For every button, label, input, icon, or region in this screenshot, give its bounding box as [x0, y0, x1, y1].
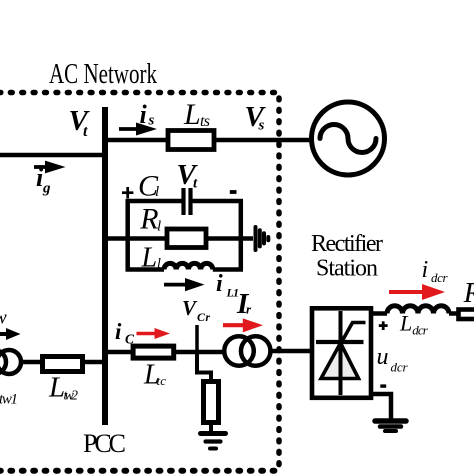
dashed border right: [276, 98, 282, 471]
svg-text:tc: tc: [157, 373, 167, 388]
svg-text:PCC: PCC: [83, 429, 126, 458]
svg-text:L: L: [183, 98, 201, 131]
sine wave: [320, 125, 376, 153]
label iC: [115, 319, 135, 347]
wire bus to Ltc: [105, 350, 131, 355]
svg-text:s: s: [148, 113, 155, 129]
VCr tick: [195, 325, 199, 352]
label Cl: [138, 170, 159, 203]
ground (rectifier): [375, 421, 406, 431]
dashed border bottom: [0, 468, 282, 474]
wire resistor to ground: [209, 425, 213, 433]
svg-text:t: t: [83, 123, 88, 140]
arrow ig: [34, 161, 66, 174]
wire rectifier bottom out: [373, 394, 391, 419]
label plus dcr: [379, 321, 388, 330]
transformer left: [0, 350, 6, 374]
label is: [140, 100, 155, 129]
rectifier box: [312, 308, 371, 398]
ground rotated (filter): [256, 227, 269, 250]
svg-text:l: l: [157, 219, 161, 235]
filter bottom edge + inductor Ll: [126, 267, 165, 272]
svg-text:w: w: [0, 308, 7, 329]
ground (PCC branch): [201, 434, 226, 449]
svg-text:s: s: [258, 118, 265, 134]
wire transformer to Ltw2: [23, 360, 40, 365]
filter box right edge: [239, 201, 244, 270]
arrow is: [119, 123, 157, 136]
label minus dcr: [380, 384, 386, 387]
thyristor bar: [316, 340, 364, 344]
label Lts: [183, 98, 210, 131]
svg-text:L: L: [399, 311, 412, 336]
filter box left edge: [125, 201, 130, 270]
label idcr: [422, 257, 449, 285]
transformer right: [224, 336, 254, 366]
thyristor triangle: [321, 343, 359, 379]
wire Ltw2 to bus: [85, 360, 105, 365]
arrow Ir red: [223, 318, 263, 332]
wire coil to resistor: [449, 311, 457, 316]
svg-text:Station: Station: [316, 256, 378, 282]
thyristor gate: [341, 323, 366, 345]
inductor Ltc: [133, 346, 174, 358]
label VCr: [182, 296, 210, 324]
dashed border top: [0, 90, 281, 96]
svg-text:tw2: tw2: [64, 389, 79, 404]
resistor vertical: [204, 382, 219, 423]
svg-text:dcr: dcr: [391, 360, 409, 375]
svg-text:V: V: [182, 296, 198, 320]
svg-text:ts: ts: [200, 113, 210, 130]
svg-text:R: R: [463, 277, 474, 309]
label Vs: [245, 101, 267, 134]
svg-text:L: L: [141, 243, 158, 274]
arrow iL1: [164, 278, 205, 291]
svg-text:R: R: [139, 203, 158, 236]
label Ltc: [143, 360, 166, 391]
filter top edge + capacitor Cl: [126, 199, 182, 204]
inductor Lts: [168, 131, 214, 150]
label iL1: [216, 271, 239, 300]
label udcr: [377, 344, 409, 375]
label plus filter: [122, 187, 133, 198]
svg-text:Cr: Cr: [197, 310, 210, 324]
wire rectifier top out: [372, 311, 387, 316]
label Rl: [139, 203, 161, 236]
label Ll: [141, 243, 162, 274]
AC source circle: [312, 102, 385, 175]
svg-text:i: i: [216, 271, 223, 297]
label ig: [36, 163, 51, 197]
svg-text:dcr: dcr: [431, 270, 448, 285]
svg-text:i: i: [422, 257, 429, 283]
resistor Rl: [167, 229, 206, 248]
resistor Rdcr (cut): [459, 310, 474, 320]
thyristor vertical: [339, 311, 343, 395]
wire left (ig): [0, 153, 105, 158]
svg-text:tw1: tw1: [0, 392, 18, 408]
bus bar PCC: [102, 107, 108, 425]
svg-text:l: l: [157, 257, 161, 272]
inductor Ldcr coil: [387, 306, 449, 314]
branch to resistor: [197, 352, 211, 381]
svg-text:AC Network: AC Network: [49, 58, 157, 90]
label Vt: [69, 105, 91, 140]
wire transformer to rectifier: [272, 349, 310, 354]
wire top (Vt bus to source): [105, 138, 313, 143]
svg-text:l: l: [155, 184, 159, 200]
arrow tw: [0, 328, 21, 340]
label Ldcr: [399, 311, 429, 338]
label Ltw2: [48, 372, 78, 404]
svg-text:Rectifier: Rectifier: [311, 231, 383, 257]
arrow iC red: [137, 328, 171, 339]
label Ir: [236, 288, 252, 320]
label Vt filter: [177, 159, 199, 192]
svg-text:g: g: [42, 181, 51, 197]
arrow idcr red: [389, 284, 445, 300]
svg-text:dcr: dcr: [412, 323, 428, 338]
label minus filter: [230, 190, 237, 194]
wire Ltc to transformer: [176, 350, 223, 355]
svg-text:u: u: [377, 344, 389, 370]
filter mid wire: [105, 236, 253, 241]
svg-text:i: i: [115, 319, 122, 344]
inductor Ltw2: [43, 357, 83, 372]
